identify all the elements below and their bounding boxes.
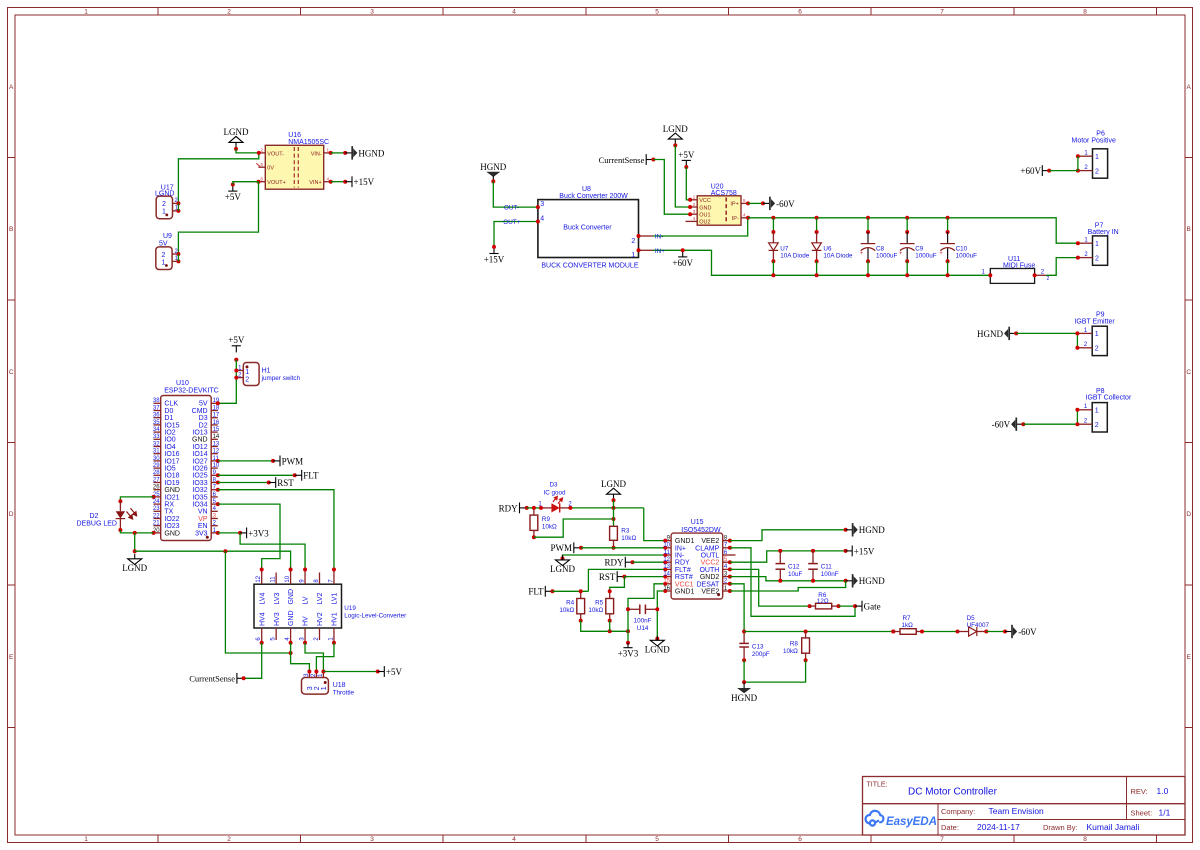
junctions on +60V battery bus: [771, 273, 949, 277]
svg-text:IO16: IO16: [164, 451, 179, 458]
svg-text:17: 17: [213, 413, 220, 419]
svg-text:2: 2: [1095, 168, 1099, 175]
svg-text:LGND: LGND: [550, 564, 575, 574]
power flag +15V (at U16 VIN+): [345, 176, 374, 187]
svg-text:10kΩ: 10kΩ: [783, 648, 798, 655]
svg-text:D: D: [1186, 511, 1191, 518]
svg-text:RST: RST: [599, 572, 616, 582]
svg-text:IP+: IP+: [730, 202, 738, 208]
svg-text:+5V: +5V: [225, 192, 242, 202]
diode U7 10A: [769, 218, 810, 275]
svg-text:C9: C9: [915, 245, 924, 252]
svg-text:LGND: LGND: [155, 191, 174, 198]
resistor R8 10k: [783, 632, 809, 663]
svg-text:CLK: CLK: [164, 401, 178, 408]
svg-text:Sheet:: Sheet:: [1131, 809, 1153, 818]
svg-text:LGND: LGND: [122, 563, 147, 573]
wire 3V3 to +3V3 flag: [218, 531, 242, 535]
svg-text:12: 12: [256, 575, 262, 582]
svg-text:EasyEDA: EasyEDA: [886, 815, 937, 828]
svg-text:ACS758: ACS758: [711, 190, 737, 197]
svg-text:24: 24: [153, 499, 160, 505]
net flag FLT (ESP32): [295, 470, 319, 481]
svg-text:ESP32-DEVKITC: ESP32-DEVKITC: [164, 388, 218, 395]
wire U9 pin2-pin1: [177, 254, 179, 261]
svg-text:LGND: LGND: [663, 124, 688, 134]
resistor R9 10k: [530, 506, 557, 539]
wire FLT / R4 / FLT# pin13: [553, 569, 666, 591]
wire throttle pin1 to +5V: [323, 670, 379, 674]
svg-text:FLT: FLT: [528, 587, 544, 597]
svg-text:Company:: Company:: [941, 807, 975, 816]
capacitor C11 100nF: [808, 551, 839, 581]
power flag HGND (at U16 VIN-): [345, 146, 385, 159]
MCU U10 ESP32-DEVKITC: [152, 380, 220, 540]
resistor R4 10k: [559, 589, 584, 622]
power flag +60V (at P6): [1020, 165, 1051, 176]
svg-text:C13: C13: [752, 643, 764, 650]
svg-text:OU1: OU1: [699, 213, 710, 219]
power flag +3V3 (ESP32): [240, 528, 269, 539]
svg-text:REV:: REV:: [1131, 787, 1148, 796]
svg-text:DEBUG LED: DEBUG LED: [77, 521, 117, 528]
wire HGND to P9: [1016, 333, 1077, 347]
net flag LGND (below D2): [122, 554, 147, 573]
svg-text:Motor Positive: Motor Positive: [1072, 137, 1116, 144]
svg-text:U19: U19: [344, 605, 356, 612]
svg-text:DESAT: DESAT: [696, 581, 720, 588]
svg-text:1: 1: [1095, 241, 1099, 248]
wire GND2 to HGND rail: [730, 577, 848, 583]
svg-text:37: 37: [153, 405, 160, 411]
wire VCC2 to +15V rail: [730, 549, 848, 562]
svg-text:GND: GND: [288, 610, 295, 626]
wire RDY row: [527, 506, 666, 541]
wire VCC1 to rail/cap: [626, 584, 665, 632]
svg-text:Date:: Date:: [941, 823, 959, 832]
svg-text:11: 11: [664, 550, 671, 556]
wire rail to +3V3 flag: [626, 631, 630, 644]
svg-text:11: 11: [271, 576, 277, 583]
wire VEE2(8) to HGND: [730, 528, 848, 541]
svg-text:33: 33: [153, 434, 160, 440]
svg-text:1: 1: [245, 369, 249, 376]
svg-text:IO15: IO15: [164, 422, 179, 429]
svg-text:2024-11-17: 2024-11-17: [977, 822, 1020, 832]
svg-text:D2: D2: [199, 422, 208, 429]
svg-text:IO13: IO13: [192, 430, 207, 437]
LED D2 DEBUG LED: [77, 499, 137, 532]
wire LGND to R3: [613, 500, 615, 526]
wire DESAT down to sense row: [730, 584, 746, 634]
svg-text:BUCK CONVERTER MODULE: BUCK CONVERTER MODULE: [541, 262, 638, 269]
svg-text:6: 6: [798, 9, 802, 16]
wire U19 GND bottom junction to throttle pin3: [289, 643, 310, 672]
wire U8 OUT+ to +15V: [494, 222, 538, 247]
svg-text:7: 7: [940, 9, 944, 16]
power flag -60V (after D5): [1005, 625, 1037, 638]
wire OUTH to R6: [730, 569, 810, 606]
power flag +60V (on IN+ wire): [672, 248, 693, 267]
svg-text:U14: U14: [637, 625, 649, 632]
wire IO34 to U19 LV4: [218, 504, 280, 569]
wire +5V to U20 VCC: [686, 167, 690, 200]
svg-text:2: 2: [227, 836, 231, 843]
svg-text:+3V3: +3V3: [618, 649, 639, 659]
power flag HGND (GND2 rail): [846, 574, 886, 587]
wire D5 to -60V: [986, 630, 1007, 634]
svg-text:IO0: IO0: [164, 437, 175, 444]
net flag PWM (driver): [550, 542, 583, 553]
wire GND1(16) to LGND: [655, 591, 665, 641]
svg-text:1: 1: [321, 686, 328, 690]
svg-text:R5: R5: [595, 600, 604, 607]
svg-text:32: 32: [153, 441, 160, 447]
svg-text:jumper switch: jumper switch: [261, 375, 301, 382]
svg-text:26: 26: [153, 485, 160, 491]
svg-text:VEE2: VEE2: [701, 538, 719, 545]
svg-text:3: 3: [307, 686, 314, 690]
svg-text:E: E: [9, 654, 14, 661]
svg-text:U8: U8: [582, 186, 591, 193]
svg-text:U7: U7: [780, 245, 789, 252]
wire VIN- to HGND: [331, 151, 348, 155]
wire PWM to IN+: [581, 547, 665, 549]
svg-text:R4: R4: [566, 600, 575, 607]
svg-text:R9: R9: [542, 516, 551, 523]
fuse U11 MIDI Fuse: [982, 256, 1050, 284]
capacitor C9 1000uF: [899, 218, 937, 275]
svg-text:-60V: -60V: [1018, 627, 1037, 637]
resistor R6 12ohm: [808, 592, 841, 609]
svg-text:VCC2: VCC2: [701, 560, 720, 567]
power flag HGND (at P9): [977, 327, 1018, 340]
svg-text:GND: GND: [164, 530, 180, 537]
svg-text:D3: D3: [199, 415, 208, 422]
svg-text:2: 2: [314, 686, 321, 690]
svg-text:8: 8: [1083, 836, 1087, 843]
svg-text:1: 1: [1095, 154, 1099, 161]
net flag PWM (ESP32): [273, 456, 303, 467]
wire CLAMP to Gate: [730, 548, 855, 617]
svg-text:23: 23: [153, 506, 160, 512]
svg-text:GND: GND: [164, 487, 180, 494]
svg-text:10kΩ: 10kΩ: [559, 607, 574, 614]
svg-text:RDY: RDY: [604, 558, 624, 568]
wire HGND to U8 OUT-: [493, 181, 538, 207]
svg-text:1: 1: [162, 209, 166, 216]
svg-text:LGND: LGND: [601, 479, 626, 489]
svg-text:12Ω: 12Ω: [817, 598, 829, 605]
svg-text:IO4: IO4: [164, 444, 175, 451]
svg-text:IC good: IC good: [544, 490, 567, 497]
wire RST to pin14 and R5: [610, 577, 666, 592]
svg-text:13: 13: [663, 564, 670, 570]
level shifter U19 Logic-Level-Converter: [254, 568, 406, 645]
svg-text:31: 31: [153, 449, 160, 455]
value label 12ohm for R6: [817, 598, 829, 605]
svg-text:10kΩ: 10kΩ: [588, 607, 603, 614]
svg-text:10: 10: [213, 463, 220, 469]
svg-text:IN-: IN-: [655, 234, 663, 241]
svg-text:-60V: -60V: [992, 420, 1011, 430]
svg-text:6: 6: [798, 836, 802, 843]
svg-text:R3: R3: [621, 528, 630, 535]
svg-text:10: 10: [285, 575, 291, 582]
wire LGND rail to U19 GND top: [135, 549, 291, 569]
svg-text:TITLE:: TITLE:: [867, 782, 888, 789]
svg-text:2: 2: [162, 201, 166, 208]
svg-text:2: 2: [245, 376, 249, 383]
wire LGND to U20 GND: [675, 145, 690, 207]
net label IN+: [655, 248, 665, 255]
svg-text:4: 4: [512, 9, 516, 16]
svg-text:H1: H1: [262, 367, 271, 374]
capacitor C8 1000uF: [860, 218, 898, 275]
svg-text:-60V: -60V: [776, 199, 795, 209]
wire RDY to pin12: [633, 561, 666, 563]
svg-text:B: B: [1187, 226, 1191, 233]
svg-text:IN-: IN-: [675, 553, 685, 560]
net flag LGND (above U20): [663, 124, 688, 148]
svg-text:CMD: CMD: [192, 408, 208, 415]
svg-text:RDY: RDY: [499, 503, 519, 513]
svg-text:Team Envision: Team Envision: [989, 806, 1045, 816]
wire C13/R8 bottoms to HGND: [742, 660, 806, 684]
svg-text:18: 18: [213, 405, 220, 411]
svg-text:HGND: HGND: [731, 693, 757, 703]
svg-text:10A Diode: 10A Diode: [780, 253, 810, 260]
svg-text:30: 30: [153, 456, 160, 462]
wire D2 cathode to GND pin 20: [120, 530, 153, 535]
svg-text:OUTL: OUTL: [701, 553, 720, 560]
svg-text:+60V: +60V: [672, 258, 693, 268]
svg-text:LV4: LV4: [259, 592, 266, 604]
svg-text:4: 4: [512, 836, 516, 843]
svg-text:22: 22: [153, 513, 160, 519]
svg-text:R7: R7: [903, 615, 912, 622]
power flag HGND (above U8 OUT-): [480, 162, 506, 183]
svg-text:10uF: 10uF: [788, 571, 803, 578]
net label OUT-: [504, 205, 519, 212]
svg-text:OUTH: OUTH: [699, 567, 719, 574]
svg-text:+: +: [899, 251, 903, 257]
svg-text:Throttle: Throttle: [333, 689, 355, 696]
svg-text:IO19: IO19: [164, 480, 179, 487]
capacitor C13 200pF: [739, 632, 770, 663]
svg-text:1000uF: 1000uF: [876, 253, 898, 260]
svg-text:GND1: GND1: [675, 589, 695, 596]
svg-text:UF4007: UF4007: [967, 622, 990, 629]
svg-text:2: 2: [162, 252, 166, 259]
svg-text:IO27: IO27: [192, 458, 207, 465]
svg-text:LV3: LV3: [274, 592, 281, 604]
svg-text:B: B: [9, 226, 13, 233]
net flag CurrentSense (throttle): [189, 673, 245, 684]
net flag LGND (below U14): [645, 636, 670, 655]
svg-text:1: 1: [84, 9, 88, 16]
wire IO27 to PWM: [218, 459, 275, 463]
svg-text:D: D: [9, 511, 14, 518]
wire +5V to H1 to ESP32 5V: [218, 360, 237, 404]
wire DESAT row to R7: [744, 630, 895, 634]
net flag Gate: [855, 601, 881, 612]
svg-text:A: A: [1187, 84, 1192, 91]
svg-text:IO23: IO23: [164, 523, 179, 530]
power flag HGND (VEE2 top): [846, 523, 886, 536]
svg-text:IGBT Collector: IGBT Collector: [1086, 395, 1132, 402]
svg-text:OUT-: OUT-: [504, 205, 519, 212]
connector U9 5V: [156, 233, 181, 270]
diode U6 10A: [812, 218, 853, 275]
svg-text:IN+: IN+: [675, 545, 686, 552]
svg-text:13: 13: [213, 441, 220, 447]
svg-text:IO34: IO34: [192, 502, 207, 509]
connector P8 IGBT Collector: [1075, 388, 1132, 432]
jumper switch H1: [234, 363, 300, 386]
power flag +5V (above H1): [228, 335, 245, 362]
svg-text:HV4: HV4: [259, 612, 266, 626]
svg-text:1/1: 1/1: [1159, 808, 1171, 818]
svg-text:7: 7: [940, 836, 944, 843]
svg-text:Gate: Gate: [864, 602, 881, 612]
wire CurrentSense to U20 OU1: [653, 160, 690, 215]
svg-text:5V: 5V: [159, 240, 168, 247]
svg-text:IO22: IO22: [164, 516, 179, 523]
net label OUT+: [503, 219, 520, 226]
svg-text:200pF: 200pF: [752, 651, 770, 658]
svg-text:12: 12: [213, 449, 220, 455]
svg-text:LV2: LV2: [317, 592, 324, 604]
svg-text:LV1: LV1: [332, 592, 339, 604]
svg-text:2: 2: [1095, 346, 1099, 353]
svg-text:IO12: IO12: [192, 444, 207, 451]
svg-text:VIN-: VIN-: [311, 151, 322, 157]
svg-text:HV1: HV1: [332, 612, 339, 626]
power flag +3V3 (driver): [618, 643, 639, 659]
wire LGND to U16 VOUT-: [236, 149, 259, 153]
svg-text:100nF: 100nF: [634, 618, 652, 625]
svg-text:8: 8: [1083, 9, 1087, 16]
sensor U20 ACS758: [686, 183, 751, 225]
wire VEE2(1) to HGND rail: [730, 581, 846, 591]
wire VIN+ to +15V: [331, 180, 348, 184]
svg-text:PWM: PWM: [282, 456, 304, 466]
svg-text:IO5: IO5: [164, 466, 175, 473]
svg-text:HGND: HGND: [977, 329, 1003, 339]
svg-text:C: C: [9, 369, 14, 376]
svg-text:1.0: 1.0: [1157, 786, 1169, 796]
svg-text:DC Motor Controller: DC Motor Controller: [908, 787, 998, 798]
resistor R5 10k: [588, 589, 613, 622]
wire IN+ net to bottom bus: [653, 250, 991, 275]
svg-text:5V: 5V: [199, 401, 208, 408]
svg-text:E: E: [1187, 654, 1192, 661]
svg-text:VOUT-: VOUT-: [267, 151, 284, 157]
svg-text:IO14: IO14: [192, 451, 207, 458]
svg-text:1: 1: [84, 836, 88, 843]
wire IN- net: [653, 218, 748, 236]
net flag RST (ESP32): [269, 477, 295, 488]
svg-text:IGBT Emitter: IGBT Emitter: [1074, 318, 1115, 325]
power flag +5V (throttle): [378, 666, 403, 677]
wire R6 to Gate: [839, 604, 858, 608]
svg-text:RST: RST: [277, 478, 294, 488]
svg-text:IO26: IO26: [192, 466, 207, 473]
svg-text:VEE2: VEE2: [701, 589, 719, 596]
svg-text:0V: 0V: [267, 166, 274, 172]
power flag -60V (at U20 IP+): [763, 197, 795, 210]
svg-text:IO33: IO33: [192, 480, 207, 487]
svg-text:LGND: LGND: [645, 644, 670, 654]
svg-text:CurrentSense: CurrentSense: [189, 674, 235, 684]
svg-text:GND: GND: [699, 205, 711, 211]
svg-text:C12: C12: [788, 563, 800, 570]
LED D3 IC good: [538, 482, 572, 513]
wire +60V motor bus (top rail): [748, 216, 1078, 243]
svg-text:3V3: 3V3: [195, 530, 208, 537]
wire IP+ to -60V: [748, 201, 765, 205]
svg-text:10kΩ: 10kΩ: [542, 524, 557, 531]
svg-text:15: 15: [213, 427, 220, 433]
connector P9 IGBT Emitter: [1074, 312, 1115, 356]
connector P6 Motor Positive: [1072, 131, 1116, 179]
svg-text:+: +: [939, 251, 943, 257]
net flag RDY (left): [499, 503, 529, 514]
wire fuse to P7 pin2: [1046, 258, 1078, 276]
svg-text:HGND: HGND: [358, 148, 384, 158]
wire U17 pin2-pin1: [177, 203, 179, 211]
svg-text:2: 2: [1095, 255, 1099, 262]
svg-text:GND: GND: [288, 589, 295, 605]
svg-text:R8: R8: [790, 640, 799, 647]
svg-text:10A Diode: 10A Diode: [823, 253, 853, 260]
svg-text:10kΩ: 10kΩ: [621, 535, 636, 542]
svg-text:VOUT+: VOUT+: [267, 180, 286, 186]
svg-text:5: 5: [655, 9, 659, 16]
svg-text:21: 21: [153, 521, 160, 527]
svg-text:CurrentSense: CurrentSense: [599, 155, 645, 165]
module U8 Buck Converter 200W: [536, 186, 653, 270]
svg-text:+60V: +60V: [1020, 166, 1041, 176]
svg-text:IO35: IO35: [192, 494, 207, 501]
svg-text:GND2: GND2: [700, 574, 720, 581]
capacitor U14 100nF: [628, 605, 657, 633]
svg-text:+: +: [860, 251, 864, 257]
svg-text:D5: D5: [967, 615, 976, 622]
svg-text:U18: U18: [333, 682, 346, 689]
wire +5V to VOUT+: [233, 182, 259, 185]
svg-text:NMA1505SC: NMA1505SC: [288, 139, 329, 146]
svg-text:Drawn By:: Drawn By:: [1043, 823, 1078, 832]
svg-text:+15V: +15V: [354, 177, 375, 187]
svg-text:FLT: FLT: [303, 471, 319, 481]
svg-text:D2: D2: [90, 513, 99, 520]
svg-text:IO2: IO2: [164, 430, 175, 437]
svg-text:U6: U6: [823, 245, 832, 252]
wire VOUT+ to U9 pin2: [178, 182, 258, 254]
svg-text:VCC: VCC: [699, 198, 711, 204]
svg-text:HGND: HGND: [480, 162, 506, 172]
wire LGND rail drop to U19 GND bottom: [225, 551, 290, 653]
svg-text:RX: RX: [164, 502, 174, 509]
wire HV4 to CurrentSense: [244, 643, 262, 679]
svg-text:CLAMP: CLAMP: [695, 545, 719, 552]
svg-text:1000uF: 1000uF: [956, 253, 978, 260]
svg-text:VN: VN: [198, 509, 208, 516]
wire IO33 to RST: [218, 481, 271, 485]
wire R7 to D5: [922, 631, 958, 633]
